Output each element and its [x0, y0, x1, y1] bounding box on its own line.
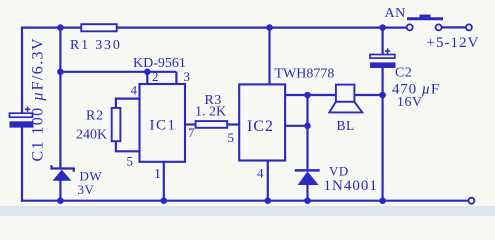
svg-text:KD-9561: KD-9561: [133, 56, 186, 71]
wire 3V horizontal to IC1: [60, 71, 176, 73]
wire 3V vertical (node to zener): [59, 28, 61, 168]
svg-text:R2: R2: [86, 109, 104, 124]
junction dot top rail / C2: [379, 24, 386, 31]
junction dot output / VD branch: [304, 92, 311, 99]
wire bottom ground rail: [21, 200, 469, 202]
svg-text:2: 2: [152, 69, 159, 84]
junction dot ground / right rail: [379, 197, 386, 204]
svg-text:VD: VD: [329, 164, 349, 179]
wire IC2 pin 4 to ground: [267, 161, 269, 201]
svg-text:16V: 16V: [397, 95, 423, 110]
svg-text:3: 3: [184, 69, 191, 84]
resistor R3: [196, 121, 228, 128]
svg-text:4: 4: [131, 83, 138, 98]
svg-text:IC1: IC1: [150, 118, 177, 134]
junction dot speaker / right rail: [379, 92, 386, 99]
wire R3 to IC2 pin 5: [227, 123, 239, 125]
wire R2 bottom to IC1 pin 5: [116, 141, 140, 151]
wire IC2 top to supply rail: [268, 28, 270, 85]
wire IC1 pin 2: [146, 72, 148, 84]
wire zener anode to ground: [59, 180, 61, 200]
svg-text:4: 4: [257, 166, 264, 181]
junction dot top rail / 3V node: [57, 24, 64, 31]
wire switch to plus terminal: [442, 26, 466, 28]
svg-text:AN: AN: [385, 6, 406, 21]
wire top rail left segment: [22, 27, 81, 29]
junction dot ground / zener: [57, 197, 64, 204]
svg-text:R1 330: R1 330: [70, 38, 122, 53]
junction dot top rail / IC2 supply: [266, 24, 273, 31]
IC U2 TWH8778: [239, 84, 285, 160]
wire IC2 lower right stub: [285, 125, 307, 127]
svg-text:IC2: IC2: [247, 118, 274, 135]
svg-text:1: 1: [154, 167, 161, 182]
wire IC1 pin 4 to R2 top: [116, 99, 140, 108]
terminal plus supply: [466, 24, 472, 30]
wire output node down to VD: [306, 95, 308, 169]
pushbutton switch AN: [407, 15, 443, 31]
junction dot 3V wire / pin2: [144, 69, 151, 76]
junction dot stub2 / VD line: [304, 123, 311, 130]
svg-text:3V: 3V: [78, 182, 95, 197]
svg-text:C2: C2: [395, 66, 412, 81]
svg-text:5: 5: [127, 154, 134, 169]
wire IC1 pin 7 to R3: [185, 123, 196, 125]
svg-text:7: 7: [188, 125, 195, 140]
IC U1 KD-9561: [140, 84, 186, 162]
zener diode DW: [52, 165, 74, 181]
junction dot ground / VD: [304, 197, 311, 204]
wire left rail upper (to C1): [21, 27, 23, 114]
svg-text:1N4001: 1N4001: [324, 178, 378, 194]
wire left rail lower (C1 to ground): [21, 128, 23, 202]
svg-text:+5-12V: +5-12V: [427, 35, 480, 51]
terminal minus supply: [468, 198, 474, 204]
wire IC2 output to speaker: [285, 94, 336, 96]
wire VD anode to ground: [306, 185, 308, 201]
junction dot 3V wire / zener branch: [57, 69, 64, 76]
wire right rail lower (C2 to ground): [382, 68, 384, 202]
svg-text:C1 100 µF/6.3V: C1 100 µF/6.3V: [30, 37, 47, 161]
junction dot ground / IC2 pin4: [265, 197, 272, 204]
capacitor C1: [10, 107, 34, 128]
wire IC1 pin 3: [175, 72, 177, 84]
diode VD 1N4001: [295, 170, 320, 185]
wire top rail right segment: [117, 27, 407, 29]
capacitor C2: [370, 48, 396, 68]
speaker BL: [329, 85, 362, 113]
wire IC1 pin 1 to ground: [163, 162, 165, 201]
svg-text:240K: 240K: [76, 128, 107, 143]
junction dot ground / IC1 pin1: [161, 197, 168, 204]
wire speaker to right rail: [354, 94, 382, 96]
svg-text:BL: BL: [337, 118, 355, 133]
svg-text:TWH8778: TWH8778: [275, 67, 335, 82]
resistor R1: [81, 24, 116, 31]
resistor R2: [112, 108, 121, 141]
svg-text:5: 5: [228, 130, 235, 145]
svg-text:1. 2K: 1. 2K: [195, 105, 226, 120]
wire right rail upper (to C2): [382, 28, 384, 55]
